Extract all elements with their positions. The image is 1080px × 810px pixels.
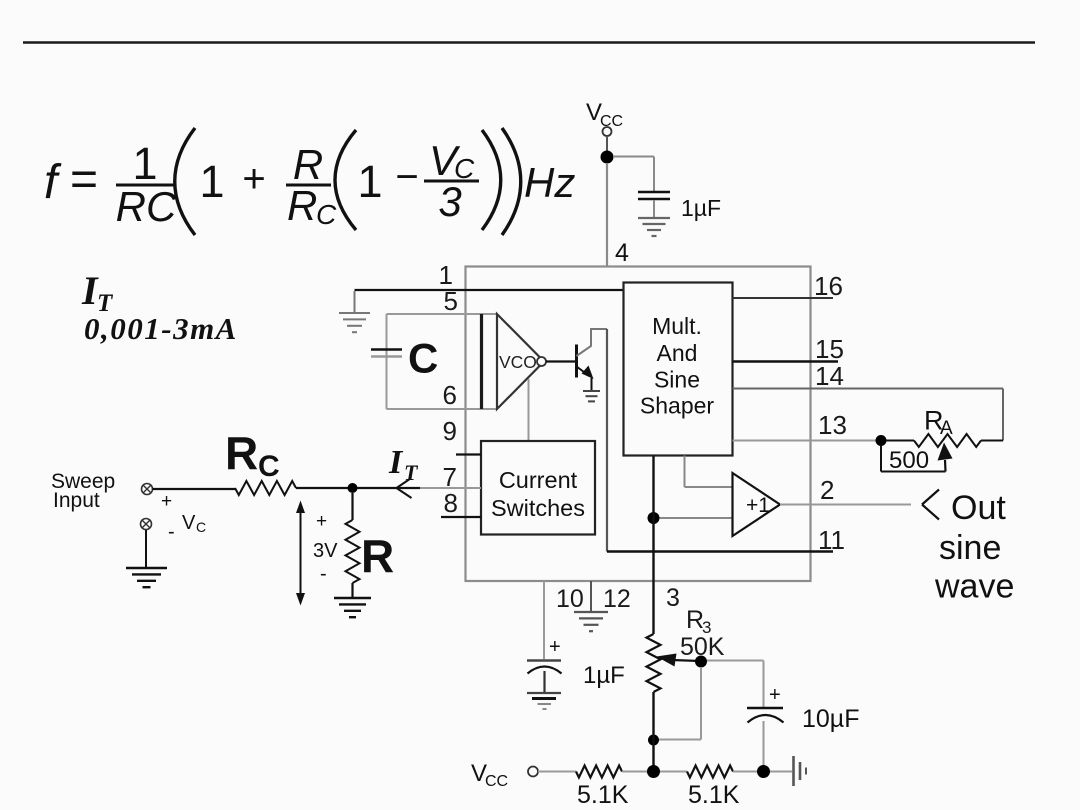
- svg-text:10: 10: [556, 585, 584, 613]
- svg-text:RC: RC: [116, 183, 177, 230]
- svg-text:wave: wave: [934, 568, 1014, 606]
- svg-text:0,001-3mA: 0,001-3mA: [84, 311, 238, 346]
- svg-text:R: R: [293, 141, 323, 188]
- svg-text:=: =: [70, 153, 98, 206]
- svg-text:10µF: 10µF: [802, 705, 859, 733]
- svg-text:R: R: [361, 530, 394, 582]
- svg-text:-: -: [168, 521, 175, 543]
- svg-text:C: C: [408, 335, 438, 382]
- svg-text:3: 3: [666, 584, 680, 612]
- svg-text:C: C: [196, 519, 206, 535]
- svg-text:12: 12: [603, 585, 631, 613]
- svg-text:T: T: [404, 460, 419, 485]
- svg-text:Input: Input: [53, 489, 100, 512]
- svg-text:3: 3: [438, 178, 461, 225]
- svg-text:1: 1: [199, 156, 224, 207]
- svg-text:+: +: [161, 491, 172, 512]
- svg-text:+: +: [242, 157, 265, 201]
- svg-text:1: 1: [357, 156, 382, 207]
- svg-text:1: 1: [132, 138, 157, 189]
- svg-text:3V: 3V: [313, 540, 338, 562]
- svg-text:V: V: [182, 512, 196, 534]
- svg-text:CC: CC: [485, 773, 508, 790]
- svg-text:+1: +1: [746, 494, 770, 517]
- svg-text:8: 8: [444, 488, 458, 518]
- svg-text:Hz: Hz: [524, 159, 575, 206]
- svg-text:500: 500: [889, 447, 929, 474]
- svg-text:Switches: Switches: [491, 495, 585, 521]
- svg-text:1µF: 1µF: [583, 662, 625, 689]
- svg-text:R: R: [225, 427, 258, 479]
- svg-text:Sine: Sine: [654, 367, 700, 393]
- svg-text:VCO: VCO: [499, 352, 537, 372]
- svg-text:9: 9: [443, 416, 457, 446]
- svg-text:16: 16: [814, 271, 843, 301]
- svg-text:5.1K: 5.1K: [688, 781, 740, 809]
- svg-text:C: C: [258, 450, 280, 483]
- svg-text:14: 14: [815, 361, 844, 391]
- svg-text:6: 6: [443, 380, 457, 410]
- svg-text:5: 5: [444, 286, 458, 316]
- svg-text:-: -: [320, 563, 327, 585]
- svg-text:f: f: [44, 156, 62, 209]
- svg-text:R: R: [287, 182, 317, 229]
- svg-text:Mult.: Mult.: [652, 313, 702, 339]
- svg-text:And: And: [657, 340, 698, 366]
- svg-text:+: +: [549, 636, 561, 658]
- svg-text:−: −: [395, 155, 418, 199]
- svg-text:+: +: [769, 684, 781, 706]
- svg-text:C: C: [316, 199, 337, 230]
- svg-text:15: 15: [815, 334, 844, 364]
- svg-text:4: 4: [615, 239, 629, 267]
- svg-text:Out: Out: [951, 489, 1006, 527]
- svg-text:1µF: 1µF: [681, 195, 721, 221]
- svg-text:2: 2: [820, 475, 834, 505]
- svg-text:13: 13: [818, 410, 847, 440]
- svg-text:I: I: [388, 444, 404, 481]
- svg-text:+: +: [316, 511, 327, 532]
- svg-text:Shaper: Shaper: [640, 393, 715, 419]
- svg-text:Current: Current: [499, 467, 578, 493]
- svg-text:11: 11: [818, 525, 845, 555]
- svg-text:A: A: [940, 418, 953, 439]
- svg-text:5.1K: 5.1K: [577, 781, 629, 809]
- svg-text:sine: sine: [939, 529, 1001, 567]
